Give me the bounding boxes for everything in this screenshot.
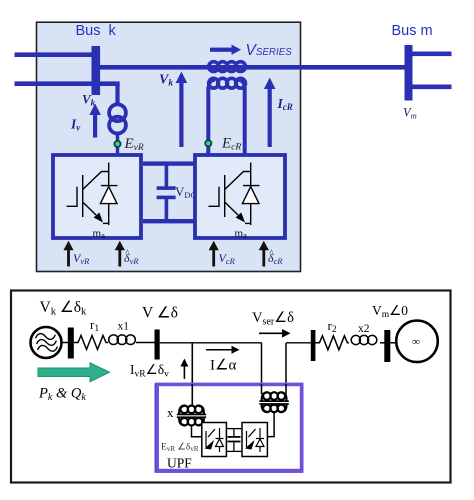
svg-text:Vk ∠δk: Vk ∠δk <box>40 299 88 318</box>
svg-text:Vm∠0: Vm∠0 <box>372 303 408 320</box>
svg-text:Bus m: Bus m <box>392 23 433 39</box>
svg-text:ma: ma <box>93 228 106 241</box>
svg-text:∞: ∞ <box>412 336 420 348</box>
svg-text:V ∠δ: V ∠δ <box>142 305 178 322</box>
svg-text:x2: x2 <box>358 323 370 335</box>
svg-text:Bus k: Bus k <box>76 23 117 39</box>
svg-text:ma: ma <box>235 228 248 241</box>
svg-text:Vm: Vm <box>403 106 417 121</box>
svg-text:x: x <box>167 405 174 420</box>
svg-text:x1: x1 <box>118 321 130 333</box>
svg-text:Pk & Qk: Pk & Qk <box>38 386 86 404</box>
svg-text:I∠α: I∠α <box>210 358 236 374</box>
svg-text:UPF: UPF <box>167 456 192 471</box>
